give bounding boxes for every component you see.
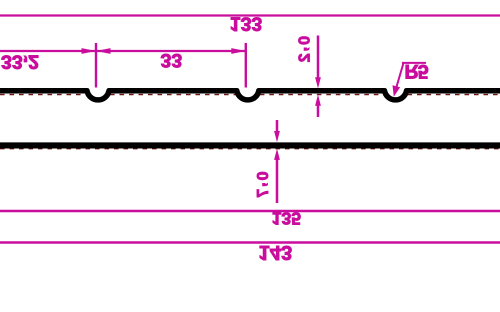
thickness dimension 0,7 lower arrow line — [274, 149, 280, 160]
svg-text:0,7: 0,7 — [252, 172, 272, 200]
arrowhead right at shared extension line x=96 — [82, 48, 97, 54]
bottom profile line — [0, 142, 500, 148]
svg-text:0,2: 0,2 — [294, 36, 314, 64]
svg-text:143: 143 — [259, 241, 293, 263]
thickness dimension 0,2 lower arrow line — [315, 95, 321, 106]
dimension line 135 (full width) — [0, 210, 500, 212]
red dashed hidden line under bottom profile — [0, 148, 500, 150]
top profile line with three notches — [0, 91, 500, 100]
arrowhead left at shared extension line x=96 — [96, 48, 111, 54]
svg-text:33: 33 — [161, 49, 183, 71]
arrowhead right at extension line x=246 — [231, 48, 246, 54]
svg-text:135: 135 — [272, 208, 301, 228]
svg-text:33,2: 33,2 — [1, 51, 39, 77]
leader arrowhead at notch — [393, 85, 401, 97]
leader line R5 — [396, 63, 403, 88]
extension line at x=96 — [95, 43, 97, 88]
extension line at x=246 — [245, 43, 247, 88]
thickness dimension 0,2 upper arrow line — [317, 36, 320, 80]
dimension line 33,2 / 33 — [0, 50, 246, 52]
dimension line 143 (full width) — [0, 241, 500, 243]
svg-text:R5: R5 — [405, 60, 429, 82]
dimension line 133 (top, full width) — [0, 14, 500, 16]
red dashed hidden line under top profile — [0, 94, 500, 96]
svg-text:133: 133 — [230, 12, 263, 34]
thickness dimension 0,7 upper arrow line — [276, 120, 279, 133]
